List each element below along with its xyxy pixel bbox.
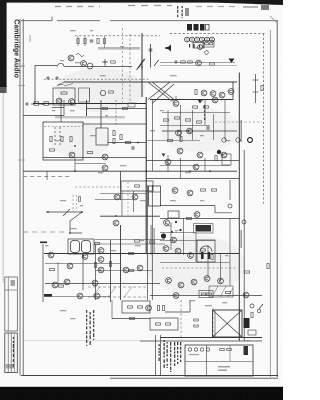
title block vertical text [13, 337, 14, 367]
part list col 4 [159, 344, 160, 361]
resistor R71 [109, 91, 114, 93]
wire x75b [74, 158, 76, 172]
dashed x213 [212, 308, 214, 337]
resistor R44 [187, 217, 192, 219]
wire x58seg [57, 262, 59, 285]
small marks under row [189, 44, 200, 48]
resistor R1 [77, 39, 79, 44]
capacitor C3 [90, 40, 94, 42]
resistor R45 [201, 249, 206, 251]
wire y125r [160, 125, 210, 127]
resistor R17b [120, 135, 122, 140]
transistor Q32 [92, 280, 98, 286]
transistor Q24 [193, 164, 199, 170]
dashed pair b [76, 195, 78, 209]
value label 39 [120, 165, 126, 166]
resistor R51 [226, 291, 231, 293]
mains table outline [185, 345, 253, 376]
resistor R37 [95, 242, 100, 244]
border frame left outer [19, 19, 21, 376]
resistor R15 [50, 149, 55, 151]
transistor Q9 [219, 92, 225, 98]
junction d1 [175, 221, 177, 223]
wire y142 [108, 142, 146, 144]
dashed y186 [75, 186, 120, 188]
resistor R60 [209, 43, 213, 45]
frame tick top [51, 17, 53, 22]
transistor Q57 [82, 254, 88, 260]
resistor R53 [162, 306, 164, 311]
transistor Q4 [69, 99, 75, 105]
supply pair b [151, 185, 153, 300]
title block inner line [7, 277, 9, 331]
ribbon cable bottom right [150, 99, 233, 101]
connector pin right a [222, 138, 226, 142]
transistor Q21 [187, 128, 193, 134]
value label 17 [200, 135, 204, 136]
DIN pins [187, 38, 212, 41]
transistor Q49 [173, 293, 179, 299]
value label 14 [55, 140, 59, 141]
dashed vline x122 [122, 28, 124, 104]
border frame right outer [276, 20, 278, 377]
right net label 2 [241, 230, 242, 248]
part list col 3 [93, 310, 94, 340]
grey dash y231 [23, 231, 66, 233]
transistor Q56 [113, 220, 119, 226]
wire v150 [150, 44, 152, 68]
DIN connector body [187, 24, 209, 31]
resistor R33 [215, 156, 217, 161]
title block lower text [6, 364, 15, 369]
connector pin right c dark [248, 138, 253, 143]
scan edge left fade [0, 87, 7, 93]
faint stub [29, 35, 31, 42]
transistor Q31 [52, 282, 58, 288]
net label text v1 [151, 225, 152, 255]
value label 26 [140, 240, 144, 241]
wire x83 [82, 254, 84, 291]
pot VR1 arrow [137, 60, 144, 70]
wire x61 drop [60, 100, 62, 122]
wire x101 [100, 100, 102, 128]
wire y244b [95, 243, 165, 245]
wire x205 [204, 100, 206, 125]
mains table col line [206, 345, 208, 376]
wire left drop [34, 65, 36, 103]
wire y199 [95, 199, 133, 201]
resistor R34 [201, 189, 206, 191]
resistor R66 [194, 319, 199, 321]
value label 37 [165, 225, 171, 226]
scan smear band 2 [98, 47, 140, 50]
transistor Q55 [98, 267, 104, 273]
resistor R67 [194, 325, 199, 327]
transistor Q2 [81, 61, 87, 67]
transistor Q50 [243, 292, 249, 298]
wire y283 [45, 283, 160, 285]
connector label [185, 8, 189, 16]
transistor Q58 [100, 90, 105, 95]
resistor R50 [207, 293, 212, 295]
transistor Q20 [176, 130, 182, 136]
title block lower outline [5, 333, 17, 373]
wire y160r [146, 160, 239, 162]
junction y171 c [189, 170, 191, 172]
resistor R52 [157, 306, 159, 311]
wire y107 [52, 107, 64, 109]
plus mark c [174, 60, 178, 64]
wire y262r [160, 262, 230, 264]
border frame left tick 3 [18, 159, 25, 161]
value label 30 [70, 318, 75, 319]
transistor Q19 [177, 148, 183, 154]
value label 28 [225, 255, 228, 256]
transistor Q54 [98, 257, 104, 263]
table circles [188, 348, 209, 351]
resistor R12 [50, 137, 52, 142]
resistor R36 [135, 185, 140, 187]
resistor R62 [123, 107, 128, 109]
resistor R49 [201, 293, 206, 295]
junction y253 a [74, 253, 76, 255]
transistor Q10 [228, 89, 234, 95]
resistor R28 [186, 119, 191, 121]
wire x120b [120, 225, 122, 300]
double resistor box [199, 291, 213, 298]
wire x120a [120, 171, 122, 200]
relay block box [121, 181, 153, 191]
resistor R13 [61, 137, 63, 142]
cap can pair [71, 241, 91, 253]
border frame bottom [21, 375, 278, 377]
right bus tick2 [253, 91, 259, 93]
value label 18 [225, 140, 230, 141]
scan edge top [0, 0, 283, 3]
wire y205r [160, 205, 215, 207]
junction y171 d [209, 170, 211, 172]
wire x230r [229, 218, 231, 286]
transistor Q46 [191, 279, 197, 285]
wire mixer drop [104, 65, 106, 67]
transistor Q38 [194, 212, 200, 218]
value label 9 [70, 110, 75, 111]
label LS terminals text 2 [182, 6, 183, 18]
junction d2 [179, 229, 181, 231]
resistor R24 [193, 106, 198, 108]
value label 27 [175, 230, 178, 231]
transistor Q14 [102, 165, 108, 171]
resistor R27 [175, 117, 180, 119]
dashed vline x130 [129, 34, 131, 104]
transistor Q7 [201, 90, 207, 96]
transistor Q43 [188, 253, 194, 259]
scan smudge top a [55, 6, 100, 8]
resistor R26 [164, 119, 169, 121]
part list col 1 [86, 310, 87, 346]
ps small box [122, 301, 150, 313]
wire x171r [170, 222, 172, 250]
value label 35 [246, 340, 251, 341]
value label 10 [105, 115, 108, 116]
transistor Q33 [94, 293, 100, 299]
resistor R40 [59, 285, 64, 287]
value label 6 [100, 75, 106, 76]
resistor R47 [245, 271, 250, 273]
jumper hump [58, 63, 64, 66]
wire x190b [189, 300, 191, 312]
resistor R43 [129, 269, 134, 271]
junction y212b [81, 211, 83, 213]
wire y337 [160, 337, 262, 339]
transistor Q18 [212, 97, 218, 103]
junction y253 c [120, 253, 122, 255]
wire r4 drop [104, 36, 106, 48]
wire y312 [165, 311, 190, 313]
grey dashes y176 [23, 176, 70, 178]
value label 1 [70, 30, 76, 31]
scan smear band [55, 116, 125, 118]
switch arm [63, 209, 70, 216]
part list col 7 [174, 342, 175, 366]
resistor R69 [94, 263, 96, 268]
value label 33 [190, 300, 195, 301]
wire x112 [111, 300, 113, 319]
resistor R59 [205, 43, 209, 45]
border frame bottom inner [110, 377, 278, 379]
secondary vline 152 [152, 100, 154, 171]
wire x168 [167, 110, 169, 140]
transistor Q28 [48, 252, 54, 258]
ribbon left taper [57, 82, 73, 86]
connector pin c [228, 204, 232, 208]
transistor Q52 [132, 194, 138, 200]
speaker icon [166, 45, 172, 52]
wire r2 drop [84, 36, 86, 46]
value label 11 [160, 110, 164, 111]
value label 29 [60, 310, 66, 311]
value label 13 [200, 100, 203, 101]
transistor Q27 [187, 190, 193, 196]
wire y112 [162, 112, 230, 114]
wire x155b [155, 335, 157, 375]
dots col b [59, 127, 60, 144]
transistor Q42 [175, 248, 181, 254]
capacitor C4 [149, 49, 153, 51]
scan mottle d [160, 108, 240, 152]
value label 12 [170, 100, 175, 101]
resistor R3 [97, 39, 99, 44]
resistor R4 [103, 39, 105, 44]
resistor R11 [261, 86, 263, 91]
wire x43 [42, 244, 44, 302]
table dark mark [244, 346, 249, 355]
wire y295 [150, 295, 262, 297]
wire y108 [87, 108, 147, 110]
wire x205b [204, 158, 206, 171]
wire y163 [75, 163, 106, 165]
resistor R55 [166, 323, 171, 325]
wire x220r [220, 253, 222, 281]
wire y239 [95, 239, 165, 241]
value label 15 [90, 135, 96, 136]
dashed vline x128 [127, 182, 129, 215]
thermal blob [161, 233, 166, 238]
transistor Q45 [178, 282, 184, 288]
wire y240r [160, 240, 215, 242]
value label 2 [90, 30, 93, 31]
scan smudge top b [128, 5, 172, 7]
border frame right inner [269, 30, 271, 377]
wire x64 [63, 100, 65, 116]
wire y218r [160, 218, 239, 220]
resistor R39 [50, 268, 55, 270]
value label 34 [205, 305, 212, 306]
junction y216 [115, 215, 117, 217]
value label 8 [52, 110, 55, 111]
wire x160b [160, 335, 162, 375]
transistor Q29 [67, 263, 73, 269]
table text c [189, 354, 199, 355]
resistor R8 [181, 61, 186, 63]
selector box 1 [53, 88, 75, 105]
value label 19 [60, 200, 66, 201]
main vertical bus left [141, 33, 143, 97]
supply pair a [147, 185, 149, 300]
wire y115 [23, 115, 64, 117]
fuse F1 box [193, 43, 204, 49]
dashed line to right [170, 33, 265, 35]
resistor R56 [251, 313, 253, 318]
transistor Q3 [56, 98, 62, 104]
capacitor C2 polarized [44, 102, 52, 105]
wire y270l [96, 270, 154, 272]
transistor Q53 [87, 63, 93, 69]
title block lower line c [13, 333, 15, 373]
wire y124 [83, 123, 146, 125]
slash mark [154, 60, 159, 66]
right vline 244 [243, 150, 245, 341]
wire y62r [160, 62, 235, 64]
wire y232r [160, 232, 195, 234]
resistor R54 [156, 323, 161, 325]
resistor R20 [88, 151, 93, 153]
dashed pair a [72, 195, 74, 212]
transistor Q37 [137, 265, 143, 271]
title block lower line b [10, 333, 12, 373]
ic box [168, 211, 179, 218]
switch bank box [68, 239, 94, 254]
value label 20 [80, 205, 83, 206]
dark blob pin [217, 150, 221, 154]
wire y340 left [23, 340, 140, 342]
value label 4 [60, 60, 64, 61]
cap can C7 [149, 186, 161, 206]
right bus a [255, 74, 257, 103]
scan smudge blob [261, 5, 269, 10]
selector box 2 [79, 88, 90, 102]
wire x168b [167, 155, 169, 171]
wire x110 [110, 240, 112, 302]
label plate dark [196, 225, 212, 232]
resistor R10 [195, 90, 197, 95]
scan smudge top c [196, 6, 235, 8]
wire x122b [121, 191, 123, 216]
resistor R31 [180, 137, 182, 142]
main vertical bus mid [145, 97, 147, 254]
title block outline [5, 277, 17, 331]
wire dark y103 [33, 103, 146, 105]
ribbon cable top [64, 81, 237, 83]
connector pin right b [236, 138, 240, 142]
speaker DIN connector row [185, 37, 215, 42]
regulator box [150, 318, 178, 330]
wire input top a [35, 64, 57, 66]
resistor R7 [210, 63, 215, 65]
value label 36 [222, 302, 227, 303]
transistor Q44 [166, 278, 172, 284]
border frame left tick 2 [18, 85, 25, 87]
diode D1 [229, 59, 235, 64]
transistor Q40 [171, 237, 177, 243]
tick x47 [46, 172, 48, 181]
value label 16 [150, 130, 155, 131]
ground triangle mark [198, 100, 203, 104]
resistor R41 [129, 252, 134, 254]
transistor Q17 [173, 101, 179, 107]
resistor R61 [103, 107, 108, 109]
pot box VR3 [96, 128, 108, 145]
ribbon twist X [148, 82, 174, 104]
scan edge bottom [0, 387, 283, 400]
junction y212 [47, 211, 49, 213]
wire y157 [43, 157, 146, 159]
net label col [204, 105, 205, 120]
transistor Q5 [198, 45, 203, 50]
wire x230 [229, 180, 231, 200]
transistor Q36 [123, 267, 129, 273]
wire x215 [214, 206, 216, 214]
resistor R64 [138, 306, 143, 308]
border frame left inner [22, 19, 24, 376]
transistor Q1 [68, 55, 74, 61]
wire x196r [195, 232, 197, 262]
dashed vline right [263, 34, 265, 205]
wire sel [89, 88, 91, 102]
resistor R5 [111, 61, 116, 63]
resistor R70 [109, 262, 111, 267]
transistor Q26 [172, 188, 178, 194]
scan mottle c [50, 122, 110, 158]
wire y216 [100, 215, 160, 217]
wire y140 [146, 140, 200, 142]
dashed y122r [215, 121, 262, 123]
scan edge top wedge [140, 0, 283, 5]
fuse F2 [248, 330, 256, 335]
transistor Q41 [163, 246, 169, 252]
transistor Q35 [98, 248, 104, 254]
cap can C7 top [149, 191, 161, 193]
scan crease left [3, 93, 4, 283]
junction d3 [171, 231, 173, 233]
wire y341 [140, 340, 262, 342]
mains table row line [185, 361, 253, 363]
wire input top b [64, 66, 132, 68]
right vline 239 [238, 73, 240, 342]
part list col 10 [177, 342, 178, 364]
value label 40 [98, 172, 103, 173]
trimmer cross [102, 59, 107, 64]
